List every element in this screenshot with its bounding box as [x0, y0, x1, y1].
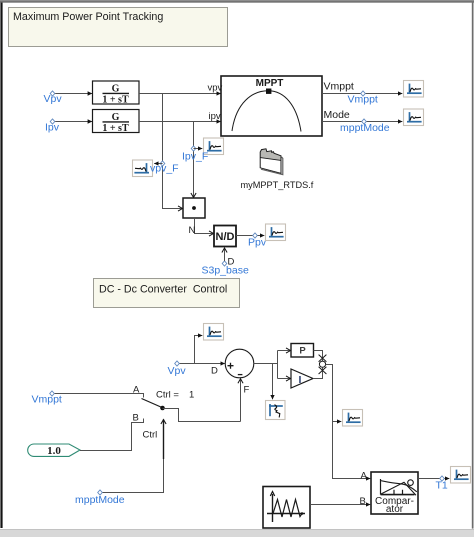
node T1 — [440, 476, 445, 481]
wire comparator out to T1 scope — [418, 478, 449, 480]
svg-text:vpv_F: vpv_F — [150, 163, 179, 175]
node Vmppt (lower-left) — [50, 391, 55, 396]
svg-text:P: P — [299, 346, 306, 357]
scope (Vpv monitor) — [204, 324, 224, 341]
PI input bracket — [277, 351, 279, 379]
wire sawtooth to comparator B — [310, 504, 370, 506]
scope T1 — [451, 467, 471, 484]
svg-text:ipv: ipv — [209, 111, 221, 122]
title box: DC - Dc Converter Control — [94, 279, 240, 308]
title box: Maximum Power Point Tracking — [9, 8, 228, 47]
svg-text:Vpv: Vpv — [168, 365, 187, 377]
wire switch common to F — [163, 409, 241, 422]
wire F input into summing junction (from switch) — [240, 379, 242, 422]
wire branch up to scope — [195, 336, 203, 364]
scope (PI output) — [343, 410, 363, 427]
node Ppv — [253, 233, 258, 238]
wire to I block — [278, 378, 291, 380]
wire Vpv to TF1 — [55, 93, 92, 95]
svg-text:1 + sT: 1 + sT — [102, 94, 129, 105]
frame: top gray bar — [0, 0, 474, 1]
svg-text:1: 1 — [189, 390, 194, 401]
node D input (S3p_base) — [222, 261, 227, 266]
divider block N/D — [214, 226, 236, 247]
svg-text:I: I — [299, 374, 302, 386]
svg-text:Ctrl =: Ctrl = — [156, 390, 179, 401]
wire MPPT Mode out to scope — [322, 121, 402, 123]
source constant 1.0 — [28, 444, 80, 457]
summing junction — [225, 349, 254, 378]
svg-text:S3p_base: S3p_base — [202, 265, 249, 277]
transfer function block TF1 (G/(1+sT)) — [93, 81, 140, 105]
wire X out down to comparator A — [326, 365, 371, 479]
node Vpv (lower) — [175, 361, 180, 366]
wire MPPT Vmppt out to scope — [322, 93, 402, 95]
svg-text:1.0: 1.0 — [47, 445, 61, 457]
svg-text:1 + sT: 1 + sT — [102, 123, 129, 134]
scope Ppv — [266, 224, 286, 241]
wire to P block — [278, 350, 291, 352]
svg-text:N/D: N/D — [216, 231, 235, 243]
svg-text:A: A — [133, 385, 140, 396]
wire TF2 to MPPT (ipv) — [139, 121, 221, 123]
svg-text:mpptMode: mpptMode — [340, 122, 390, 134]
scope Ipv_F — [204, 138, 224, 155]
Ctrl arrow — [163, 420, 165, 460]
svg-text:F: F — [244, 385, 250, 396]
svg-text:myMPPT_RTDS.f: myMPPT_RTDS.f — [241, 180, 314, 190]
scope (error monitor, rotated) — [266, 401, 286, 420]
svg-text:B: B — [133, 413, 139, 424]
folder icon myMPPT_RTDS.f — [260, 149, 283, 175]
wire tap to vpv_F scope (leftward) — [154, 163, 162, 165]
wire branch to scope — [333, 421, 342, 423]
svg-text:D: D — [211, 366, 218, 377]
wire Vmppt to switch A terminal — [55, 394, 144, 398]
frame: left black border — [0, 3, 2, 528]
wire Ipv to TF2 — [55, 121, 92, 123]
wire branch ipv down to multiplier top — [193, 122, 195, 198]
svg-text:Vmppt: Vmppt — [32, 394, 62, 406]
wire branch down to scope (rotated) — [272, 364, 274, 400]
svg-text:A: A — [361, 471, 368, 482]
multiplier block — [183, 198, 205, 218]
svg-text:Mode: Mode — [324, 109, 350, 121]
wire multiplier out to N/D — [195, 218, 214, 234]
svg-text:N: N — [189, 225, 196, 236]
wire tap to Ipv_F scope — [194, 148, 203, 150]
wire P out to X junction — [314, 351, 323, 362]
wire N/D out to Ppv scope — [236, 235, 264, 237]
wire summing out to PI bracket — [254, 363, 278, 365]
frame: bottom gray strip — [0, 529, 474, 530]
wire mpptMode up to switch Ctrl — [103, 458, 164, 493]
I block (integrator triangle) — [291, 369, 313, 388]
svg-text:DC - Dc Converter Control: DC - Dc Converter Control — [99, 283, 227, 295]
node Vmppt — [361, 91, 366, 96]
svg-text:Vmppt: Vmppt — [324, 81, 354, 93]
svg-text:B: B — [360, 496, 366, 507]
wire Vpv to summing junction D input — [180, 363, 225, 365]
node Vpv input — [50, 91, 55, 96]
scope mpptMode — [404, 109, 424, 126]
transfer function block TF2 (G/(1+sT)) — [93, 110, 140, 134]
node vpv_F tap — [160, 161, 165, 166]
X summing junction — [319, 355, 327, 374]
svg-text:Maximum Power Point Tracking: Maximum Power Point Tracking — [13, 11, 163, 23]
svg-text:Vmppt: Vmppt — [348, 94, 378, 106]
svg-text:Ppv: Ppv — [248, 237, 267, 249]
svg-text:Vpv: Vpv — [44, 93, 63, 105]
frame: right gray border — [472, 3, 474, 529]
svg-text:ator: ator — [386, 504, 404, 515]
node mpptMode — [362, 119, 367, 124]
wire branch vpv down to multiplier left — [163, 94, 183, 209]
wire TF1 to MPPT (vpv) — [139, 93, 221, 95]
MPPT block U1 — [221, 76, 322, 136]
wire S3p_base up to N/D — [224, 248, 226, 261]
svg-text:T1: T1 — [436, 480, 448, 492]
svg-text:Ipv_F: Ipv_F — [182, 151, 208, 163]
comparator block — [371, 472, 418, 515]
scope vpv_F (mirrored) — [133, 160, 153, 177]
wire I out to X junction — [313, 368, 323, 379]
svg-text:MPPT: MPPT — [256, 78, 284, 89]
wire 1.0 to switch B terminal — [80, 419, 144, 451]
node Ipv_F tap — [191, 146, 196, 151]
svg-text:Ctrl: Ctrl — [143, 430, 158, 441]
sawtooth generator block — [263, 487, 310, 529]
svg-text:mpptMode: mpptMode — [75, 494, 125, 506]
svg-text:Ipv: Ipv — [45, 122, 60, 134]
node Ipv input — [50, 119, 55, 124]
scope Vmppt — [404, 81, 424, 98]
switch arm and pivot — [142, 399, 163, 408]
P block — [291, 344, 314, 358]
node mpptMode (bottom) — [98, 490, 103, 495]
